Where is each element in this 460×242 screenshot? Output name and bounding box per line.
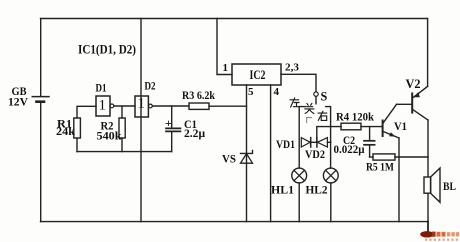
svg-text:D2: D2 — [145, 79, 156, 93]
wire V1 emitter to ground rail — [398, 138, 400, 222]
resistor R3 — [189, 103, 209, 109]
wire IC2 pin1 from top rail — [217, 19, 232, 75]
wire V2 emitter to top rail — [427, 19, 429, 87]
wire bottom ground rail — [41, 221, 429, 223]
svg-text:12V: 12V — [8, 95, 28, 109]
lamp HL2 — [323, 168, 338, 183]
svg-text:R4 120k: R4 120k — [336, 110, 374, 124]
svg-text:IC2: IC2 — [250, 68, 266, 82]
label you (right) chinese char — [318, 111, 327, 120]
svg-text:VD1: VD1 — [276, 137, 295, 151]
wire diode node up to R4 feed — [317, 127, 341, 143]
lamp HL1 — [292, 168, 307, 183]
wire vertical through D2 (top rail to bottom rail) — [140, 19, 142, 222]
svg-text:2,3: 2,3 — [285, 62, 300, 74]
wire HL2 to ground rail — [330, 183, 332, 222]
op-amp D1 (inverter gate) — [96, 96, 114, 116]
wire left rail upper (battery positive lead) — [40, 19, 42, 97]
wire lower return bus (R1/R2/C1) — [77, 151, 172, 153]
wire stub below rail at watermark — [427, 222, 429, 235]
svg-text:1: 1 — [99, 98, 107, 114]
IC IC2 box — [232, 64, 281, 85]
svg-text:1: 1 — [223, 62, 229, 74]
switch S pole stub — [315, 97, 317, 104]
svg-text:2.2μ: 2.2μ — [184, 126, 205, 140]
wire D2 output to R3 — [152, 105, 189, 107]
battery GB plates — [32, 97, 49, 102]
diode VD1 — [301, 138, 310, 147]
capacitor C2 — [364, 127, 375, 157]
svg-text:0.022μ: 0.022μ — [334, 144, 365, 156]
diode VD2 — [317, 138, 328, 147]
wire left rail lower (battery negative lead) — [40, 103, 42, 222]
wire IC2 pin4 to ground rail — [270, 85, 272, 222]
transistor V1 — [383, 104, 399, 138]
svg-text:IC1(D1, D2): IC1(D1, D2) — [78, 42, 136, 57]
svg-text:HL2: HL2 — [306, 183, 328, 197]
svg-text:R5 1M: R5 1M — [366, 160, 394, 174]
svg-text:VS: VS — [222, 152, 236, 166]
wire V2 collector / speaker branch — [427, 120, 429, 222]
svg-text:S: S — [321, 90, 328, 104]
switch S pole circle — [314, 92, 318, 96]
wire R2 bottom lead — [121, 138, 123, 152]
label zuo (left) chinese char — [290, 98, 300, 107]
svg-text:+: + — [165, 116, 172, 130]
svg-text:VD2: VD2 — [305, 147, 325, 161]
wire VD1-VD2 middle node — [311, 141, 317, 143]
wire VD2 anode to HL2 branch — [327, 141, 330, 143]
wire R5 to speaker branch — [395, 156, 428, 158]
resistor R1 — [74, 118, 81, 138]
svg-text:540k: 540k — [97, 129, 122, 143]
transistor V2 — [412, 86, 428, 120]
resistor R4 — [341, 123, 361, 130]
svg-text:24k: 24k — [56, 124, 75, 138]
op-amp D2 (inverter gate) — [135, 96, 152, 117]
zener diode VS — [241, 150, 253, 163]
svg-text:V1: V1 — [394, 119, 407, 133]
wire R3 to VS line — [209, 105, 247, 107]
svg-text:1: 1 — [138, 96, 146, 112]
watermark text row 1 — [437, 232, 460, 237]
resistor R5 — [373, 154, 395, 160]
wire R4 to V1 base — [361, 126, 382, 128]
wire D1 output to D2 input — [114, 105, 135, 107]
svg-text:D1: D1 — [96, 81, 107, 95]
capacitor C1 — [166, 106, 180, 152]
speaker BL — [424, 168, 440, 202]
switch contact left (zuo) bracket — [299, 107, 305, 169]
svg-text:4: 4 — [274, 86, 280, 98]
svg-text:5: 5 — [248, 86, 254, 98]
svg-text:BL: BL — [443, 179, 456, 193]
wire IC2 pins 2,3 to switch S — [281, 74, 316, 91]
svg-text:V2: V2 — [406, 76, 421, 91]
svg-text:R3 6.2k: R3 6.2k — [182, 88, 215, 102]
wire V1 collector to V2 base — [397, 103, 412, 105]
watermark text row 2 — [425, 239, 458, 241]
wire R1 bottom lead — [76, 138, 78, 152]
label guan (off) chinese char — [305, 103, 314, 113]
resistor R2 — [119, 118, 125, 138]
wire IC2 pin5 / VS branch vertical — [246, 85, 248, 222]
wire HL1 to ground rail — [298, 183, 300, 222]
wire R2 top lead from node — [121, 106, 123, 118]
svg-text:HL1: HL1 — [271, 183, 294, 197]
wire top +12V rail — [41, 18, 428, 20]
switch contact middle (guan) bracket — [307, 118, 312, 123]
switch contact right (you) bracket — [326, 107, 331, 169]
watermark logo blob — [420, 231, 435, 237]
wire D1 input branch from R1 — [77, 106, 96, 118]
wire C2 to R5 — [370, 156, 373, 158]
